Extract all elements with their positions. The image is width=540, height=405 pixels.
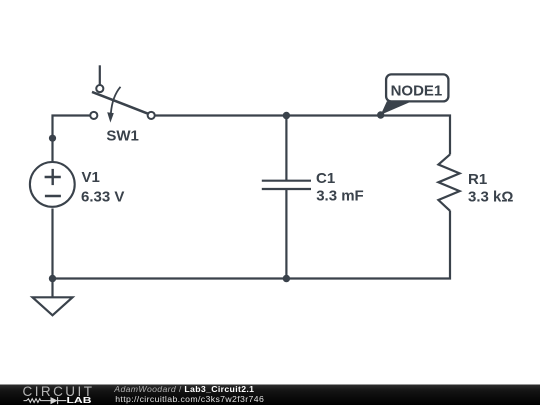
svg-text:AdamWoodard / Lab3_Circuit2.1: AdamWoodard / Lab3_Circuit2.1 (113, 384, 254, 394)
svg-text:3.3 mF: 3.3 mF (316, 187, 364, 204)
svg-text:SW1: SW1 (106, 127, 139, 144)
svg-text:http://circuitlab.com/c3ks7w2f: http://circuitlab.com/c3ks7w2f3r746 (115, 394, 264, 404)
svg-text:LAB: LAB (67, 395, 92, 405)
svg-text:C1: C1 (316, 170, 335, 187)
svg-text:3.3 kΩ: 3.3 kΩ (468, 189, 513, 206)
svg-text:NODE1: NODE1 (391, 83, 443, 100)
svg-text:6.33 V: 6.33 V (81, 189, 124, 206)
svg-text:R1: R1 (468, 171, 487, 188)
svg-text:V1: V1 (82, 169, 100, 186)
